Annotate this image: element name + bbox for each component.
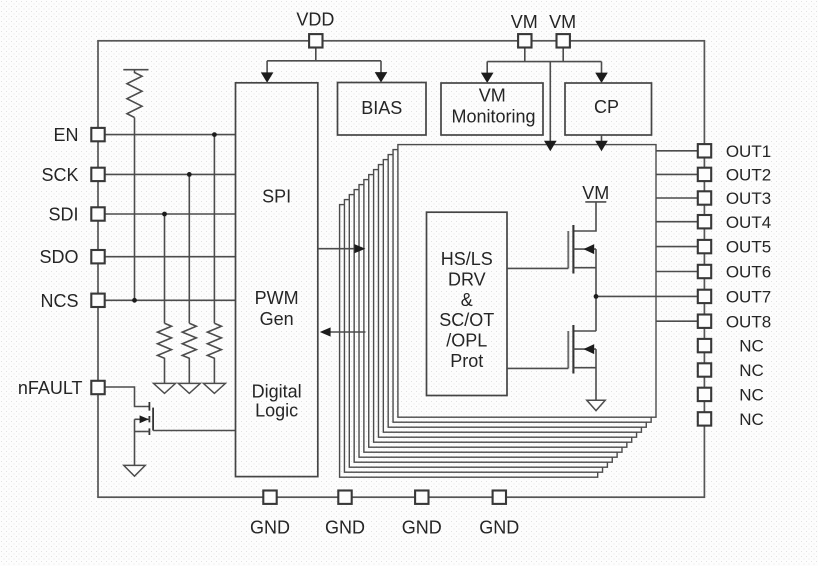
wire VM to CP: [601, 62, 603, 75]
arrowhead VM into stack: [544, 141, 557, 151]
wire nFAULT pin to Q1 drain: [105, 387, 150, 407]
pin nFAULT: [91, 381, 104, 394]
svg-text:VM: VM: [511, 12, 538, 32]
wire stack to OUT1: [656, 150, 699, 152]
ground symbol under R2: [154, 383, 176, 393]
svg-text:PWM: PWM: [255, 288, 299, 308]
transistor Q3 body arrow: [583, 344, 594, 354]
svg-text:Prot: Prot: [450, 351, 483, 371]
ground symbol under Q3: [587, 400, 605, 410]
pin VDD: [309, 34, 322, 47]
svg-text:SCK: SCK: [41, 165, 78, 185]
transistor Q1 body arrow: [140, 415, 149, 423]
wire VM rail into stack: [549, 62, 551, 142]
svg-text:HS/LS: HS/LS: [441, 249, 493, 269]
wire Q2 source to half-bridge node: [595, 249, 597, 331]
transistor Q3 gate bar: [567, 331, 569, 368]
transistor Q2 body stub: [573, 248, 596, 250]
arrowhead into BIAS: [375, 72, 388, 82]
transistor Q2 channel: [572, 225, 574, 274]
pin VM 2: [557, 34, 570, 47]
svg-text:SC/OT: SC/OT: [439, 310, 494, 330]
transistor Q3 body stub: [573, 348, 596, 350]
VM stem pin2: [562, 48, 564, 62]
arrowhead CP into stack: [595, 141, 608, 151]
wire R1 to NCS node: [134, 118, 136, 301]
ground symbol under R4: [203, 383, 225, 393]
wire EN tap down: [213, 135, 215, 324]
svg-text:/OPL: /OPL: [446, 331, 487, 351]
half-bridge stack (13 layered rectangles): [340, 145, 656, 478]
resistor R1 body: [127, 70, 142, 118]
arrowhead into SPI: [320, 327, 331, 336]
pin OUT1: [698, 144, 711, 157]
node EN junction dot: [212, 132, 217, 137]
svg-text:DRV: DRV: [448, 269, 486, 289]
svg-text:EN: EN: [53, 125, 78, 145]
wire stack to SPI (feedback): [330, 331, 366, 333]
pin OUT8: [698, 315, 711, 328]
pin OUT2: [698, 168, 711, 181]
svg-text:NC: NC: [739, 361, 764, 380]
block BIAS: [338, 83, 427, 136]
wire SDI tap down: [164, 214, 166, 323]
wire HS/LS DRV to Q2 gate: [507, 267, 568, 269]
wire VM bar to Q2 drain: [573, 202, 596, 231]
VM rail bar in stack: [585, 201, 606, 203]
wire stack to OUT8: [656, 320, 699, 322]
resistor R3 pull-down on SCK: [182, 323, 196, 383]
svg-text:Monitoring: Monitoring: [451, 107, 535, 127]
wire SPI to stack (control bus): [318, 248, 356, 250]
pin OUT7: [698, 290, 711, 303]
block CP: [565, 83, 652, 135]
svg-text:OUT6: OUT6: [726, 263, 771, 282]
svg-text:OUT3: OUT3: [726, 189, 771, 208]
svg-text:GND: GND: [325, 518, 365, 538]
pin OUT4: [698, 215, 711, 228]
VM stem pin1: [524, 48, 526, 62]
svg-text:CP: CP: [594, 97, 619, 117]
pin SCK: [91, 168, 104, 181]
VDD distribution bar: [267, 60, 381, 62]
wire half-bridge node to OUT7: [596, 295, 699, 297]
resistor R4 pull-down on EN: [207, 323, 221, 383]
svg-text:SDO: SDO: [39, 247, 78, 267]
pin NC 2: [698, 363, 711, 376]
wire NCS pin to SPI: [105, 299, 236, 301]
svg-text:GND: GND: [479, 518, 519, 538]
block HS/LS DRV & SC/OT/OPL Prot: [427, 212, 508, 395]
svg-text:OUT8: OUT8: [726, 312, 771, 331]
svg-text:NC: NC: [739, 386, 764, 405]
resistor R1 pull-up on NCS: rail bar: [123, 69, 148, 71]
arrowhead into VM Monitoring: [481, 73, 494, 83]
svg-text:GND: GND: [402, 518, 442, 538]
svg-text:SPI: SPI: [262, 186, 291, 206]
pin OUT6: [698, 265, 711, 278]
wire stack to OUT2: [656, 173, 699, 175]
transistor Q1 source stub: [135, 431, 150, 433]
wire Q1 source to ground: [134, 419, 136, 465]
svg-text:OUT5: OUT5: [726, 238, 771, 257]
pin NCS: [91, 294, 104, 307]
wire EN pin to SPI: [105, 134, 236, 136]
wire VDD to BIAS: [380, 61, 382, 74]
wire VDD to SPI: [266, 61, 268, 74]
svg-text:GND: GND: [250, 518, 290, 538]
ground symbol under R3: [178, 383, 200, 393]
wire Q3 source to ground: [595, 349, 597, 400]
wire SDI pin to SPI: [105, 213, 236, 215]
pin VM 1: [518, 34, 531, 47]
pin NC 3: [698, 388, 711, 401]
node SCK junction dot: [187, 172, 192, 177]
node half-bridge junction dot: [594, 294, 599, 299]
arrowhead into stack: [354, 244, 365, 253]
block SPI / PWM Gen / Digital Logic: [236, 83, 318, 477]
pin GND 2: [338, 491, 351, 504]
arrowhead into SPI: [261, 72, 274, 82]
wire stack to OUT5: [656, 246, 699, 248]
pin GND 4: [493, 491, 506, 504]
svg-text:SDI: SDI: [48, 205, 78, 225]
svg-text:Gen: Gen: [260, 309, 294, 329]
svg-text:OUT4: OUT4: [726, 213, 771, 232]
pin SDO: [91, 250, 104, 263]
pin NC 4: [698, 412, 711, 425]
IC outer border: [98, 41, 704, 497]
svg-text:OUT1: OUT1: [726, 142, 771, 161]
pin GND 1: [263, 491, 276, 504]
svg-text:VM: VM: [479, 85, 506, 105]
svg-text:OUT2: OUT2: [726, 166, 771, 185]
transistor Q2 body arrow: [583, 244, 594, 254]
wire VM to VM Monitoring: [486, 62, 488, 75]
block VM Monitoring: [441, 83, 543, 135]
svg-text:VM: VM: [582, 183, 609, 203]
pin OUT5: [698, 240, 711, 253]
wire Q1 gate to Digital Logic: [153, 430, 235, 432]
svg-text:nFAULT: nFAULT: [18, 378, 83, 398]
transistor Q1 body stub: [135, 418, 150, 420]
svg-text:VM: VM: [549, 12, 576, 32]
pin OUT3: [698, 191, 711, 204]
wire stack to OUT6: [656, 271, 699, 273]
transistor Q1 channel: [148, 402, 150, 435]
transistor Q3 drain stub: [573, 330, 596, 332]
svg-text:Logic: Logic: [255, 401, 298, 421]
pin NC 1: [698, 339, 711, 352]
VDD stem: [315, 48, 317, 61]
wire SCK tap down: [188, 174, 190, 323]
wire SCK pin to SPI: [105, 173, 236, 175]
svg-text:NC: NC: [739, 337, 764, 356]
pin EN: [91, 128, 104, 141]
svg-text:VDD: VDD: [296, 10, 334, 30]
svg-text:NCS: NCS: [40, 291, 78, 311]
pin GND 3: [415, 491, 428, 504]
svg-text:NC: NC: [739, 410, 764, 429]
wire CP into stack: [601, 135, 603, 142]
wire stack to OUT4: [656, 221, 699, 223]
wire stack to OUT3: [656, 197, 699, 199]
svg-text:&: &: [461, 290, 473, 310]
wire SDO pin to SPI: [105, 256, 236, 258]
node NCS junction dot: [132, 298, 137, 303]
svg-text:OUT7: OUT7: [726, 288, 771, 307]
pin SDI: [91, 207, 104, 220]
transistor Q2 gate bar: [567, 231, 569, 268]
transistor Q3 channel: [572, 325, 574, 374]
svg-text:BIAS: BIAS: [361, 98, 402, 118]
resistor R2 pull-down on SDI: [158, 323, 172, 383]
wire HS/LS DRV to Q3 gate: [507, 367, 568, 369]
node SDI junction dot: [162, 212, 167, 217]
svg-text:Digital: Digital: [252, 381, 302, 401]
ground symbol under Q1: [124, 465, 145, 476]
arrowhead into CP: [595, 73, 608, 83]
transistor Q1 gate bar: [152, 408, 154, 431]
transistor Q2 source stub: [573, 267, 596, 269]
transistor Q3 source stub: [573, 367, 596, 369]
VM distribution bar: [487, 61, 601, 63]
